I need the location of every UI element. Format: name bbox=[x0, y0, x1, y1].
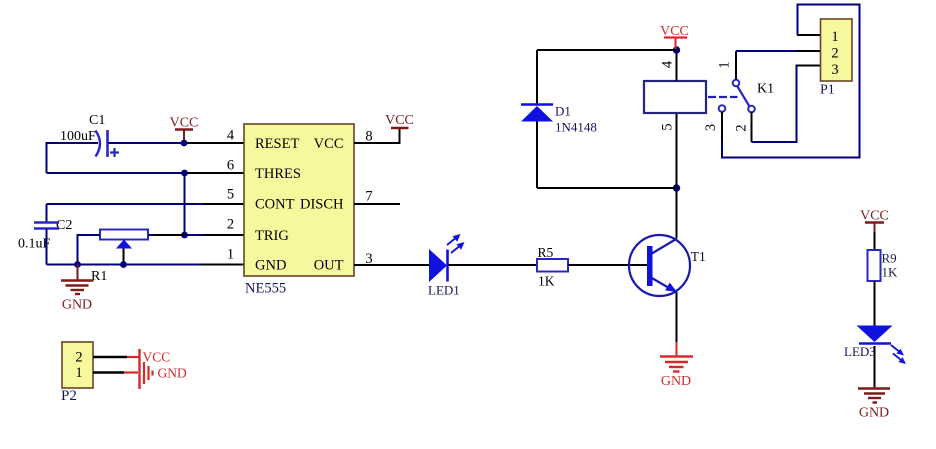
capacitor C2 bbox=[18, 218, 72, 252]
svg-text:1N4148: 1N4148 bbox=[555, 120, 597, 135]
LED LED3 bbox=[844, 326, 906, 365]
svg-text:VCC: VCC bbox=[314, 136, 344, 152]
power VCC at pin 8 bbox=[385, 113, 414, 128]
wire red lead to VCC bar bbox=[127, 356, 139, 358]
ground GND under T1 (red) bbox=[660, 342, 693, 389]
svg-text:1: 1 bbox=[227, 247, 234, 263]
op-amp U1: NE555 timer body bbox=[244, 124, 354, 297]
wire LED1 to R5 bbox=[448, 264, 537, 266]
svg-text:2: 2 bbox=[75, 350, 82, 366]
ground GND (left, maroon) bbox=[61, 265, 94, 313]
wire C1 left lead to pin6 net bbox=[47, 143, 99, 173]
svg-text:RESET: RESET bbox=[255, 136, 299, 152]
junction pin4/VCC bbox=[181, 140, 188, 147]
power VCC above R9 (maroon) bbox=[860, 209, 889, 233]
svg-text:1: 1 bbox=[75, 365, 82, 381]
wire pot left lead bbox=[78, 235, 101, 265]
wire vertical pin6 to pin2 bbox=[184, 173, 186, 235]
junction collector/D1/relay bbox=[673, 184, 680, 191]
wire T1 emitter down bbox=[676, 292, 678, 342]
svg-text:C2: C2 bbox=[56, 218, 72, 233]
wire pot wiper stub bbox=[123, 249, 125, 265]
wire P2 pin2 to VCC bbox=[93, 356, 127, 358]
wire relay pin5 stub bbox=[676, 113, 678, 188]
svg-text:5: 5 bbox=[227, 187, 234, 203]
junction VCC/D1 bbox=[673, 46, 680, 53]
wire D1 loop bottom bbox=[537, 187, 677, 189]
wire switch pin1 to P1 pin2 bbox=[736, 50, 797, 52]
wire D1 lower lead bbox=[536, 121, 538, 188]
svg-text:VCC: VCC bbox=[860, 209, 889, 224]
wire red lead to GND bars bbox=[124, 371, 138, 373]
diode D1 1N4148 bbox=[521, 104, 597, 135]
wire pin 4 (RESET) from C1 to chip bbox=[108, 142, 184, 144]
connector P1 bbox=[820, 19, 852, 98]
wire C2 bottom lead bbox=[46, 229, 48, 265]
power VCC at P2 (red bar) bbox=[140, 349, 171, 389]
pin stub P1 pin 2 bbox=[797, 50, 821, 52]
svg-text:TRIG: TRIG bbox=[255, 228, 289, 244]
svg-text:GND: GND bbox=[661, 374, 691, 389]
wire pin 3 to LED1 bbox=[354, 264, 430, 266]
capacitor C1 bbox=[60, 113, 119, 157]
svg-text:LED1: LED1 bbox=[428, 283, 460, 298]
svg-text:VCC: VCC bbox=[143, 350, 171, 365]
wire R5 to T1 base bbox=[568, 264, 648, 266]
svg-text:LED3: LED3 bbox=[844, 344, 876, 359]
svg-text:2: 2 bbox=[227, 217, 234, 233]
wire relay pin4 stub bbox=[676, 50, 678, 81]
svg-text:GND: GND bbox=[859, 406, 889, 421]
wire pot right lead bbox=[148, 234, 154, 236]
svg-text:4: 4 bbox=[227, 128, 235, 144]
svg-text:R9: R9 bbox=[882, 251, 897, 266]
svg-text:T1: T1 bbox=[691, 249, 706, 264]
wire switch pin3 to P1 pin1 bbox=[722, 5, 860, 158]
svg-text:2: 2 bbox=[831, 46, 838, 62]
switch pin 3 stub bbox=[721, 112, 723, 142]
relay K1 coil bbox=[644, 81, 706, 113]
wire VCC to R9 bbox=[874, 232, 876, 250]
svg-text:7: 7 bbox=[365, 189, 372, 205]
wire pin 1 (GND) bbox=[47, 264, 202, 266]
svg-text:3: 3 bbox=[831, 62, 838, 78]
wire D1 upper lead bbox=[536, 50, 538, 104]
svg-text:5: 5 bbox=[660, 123, 676, 130]
svg-text:DISCH: DISCH bbox=[300, 197, 344, 213]
pin stub P1 pin 3 bbox=[797, 65, 821, 67]
svg-text:4: 4 bbox=[660, 60, 676, 68]
switch pin 2 stub bbox=[751, 112, 753, 142]
svg-text:C1: C1 bbox=[89, 113, 105, 128]
transistor T1 bbox=[629, 235, 706, 296]
svg-text:NE555: NE555 bbox=[245, 281, 286, 297]
wire pin 8 to VCC bbox=[354, 129, 400, 143]
power VCC symbol near C1 bbox=[170, 116, 199, 144]
wire LED3 to GND bbox=[874, 346, 876, 388]
svg-text:K1: K1 bbox=[757, 82, 774, 97]
wire pin 5 (CONT) bbox=[47, 203, 205, 205]
svg-text:VCC: VCC bbox=[385, 113, 414, 128]
LED LED1 bbox=[428, 234, 465, 298]
svg-text:P2: P2 bbox=[61, 388, 77, 404]
junction pin2 bbox=[181, 232, 188, 239]
svg-text:D1: D1 bbox=[555, 104, 571, 119]
svg-text:100uF: 100uF bbox=[60, 129, 96, 144]
ground GND at P2 (red bars) bbox=[144, 362, 187, 384]
ground GND bottom right (maroon) bbox=[858, 389, 890, 421]
svg-text:3: 3 bbox=[703, 124, 719, 131]
pin stub P1 pin 1 bbox=[797, 34, 821, 36]
potentiometer R1 bbox=[91, 230, 148, 285]
svg-text:OUT: OUT bbox=[314, 258, 344, 274]
svg-text:2: 2 bbox=[734, 124, 750, 131]
wire C2 top lead bbox=[46, 204, 48, 222]
svg-text:R1: R1 bbox=[91, 269, 107, 284]
svg-text:6: 6 bbox=[227, 158, 234, 174]
junction pot-left/gnd bbox=[74, 261, 81, 268]
svg-text:1K: 1K bbox=[882, 265, 899, 280]
wire R9 to LED3 bbox=[874, 281, 876, 326]
svg-text:1K: 1K bbox=[538, 274, 555, 289]
wire P2 pin1 to GND bbox=[93, 371, 124, 373]
svg-text:VCC: VCC bbox=[170, 116, 199, 131]
resistor R9 bbox=[868, 250, 899, 281]
junction wiper bbox=[120, 261, 127, 268]
switch pin 1 stub bbox=[735, 51, 737, 80]
connector P2 bbox=[61, 342, 93, 404]
svg-text:1: 1 bbox=[831, 29, 838, 45]
wire T1 collector up bbox=[676, 188, 678, 238]
junction pin6 bbox=[181, 170, 188, 177]
wire D1 loop top bbox=[537, 49, 677, 51]
wire pin 6 (THRES) bbox=[47, 172, 185, 174]
wire switch pin2 to P1 pin3 bbox=[752, 66, 798, 143]
svg-text:1: 1 bbox=[717, 61, 733, 68]
power VCC above relay (red) bbox=[660, 24, 689, 50]
svg-text:P1: P1 bbox=[820, 83, 835, 98]
wire pin 2 (TRIG) bbox=[185, 234, 205, 236]
svg-text:THRES: THRES bbox=[255, 166, 301, 182]
resistor R5 bbox=[537, 245, 568, 289]
svg-text:GND: GND bbox=[158, 366, 187, 381]
relay switch K1 contacts bbox=[719, 80, 774, 113]
relay dashed actuator line bbox=[708, 96, 738, 98]
svg-text:GND: GND bbox=[62, 298, 92, 313]
wire pin 7 stub bbox=[354, 203, 400, 205]
svg-text:R5: R5 bbox=[538, 245, 554, 260]
svg-text:GND: GND bbox=[255, 258, 286, 274]
svg-text:CONT: CONT bbox=[255, 197, 295, 213]
